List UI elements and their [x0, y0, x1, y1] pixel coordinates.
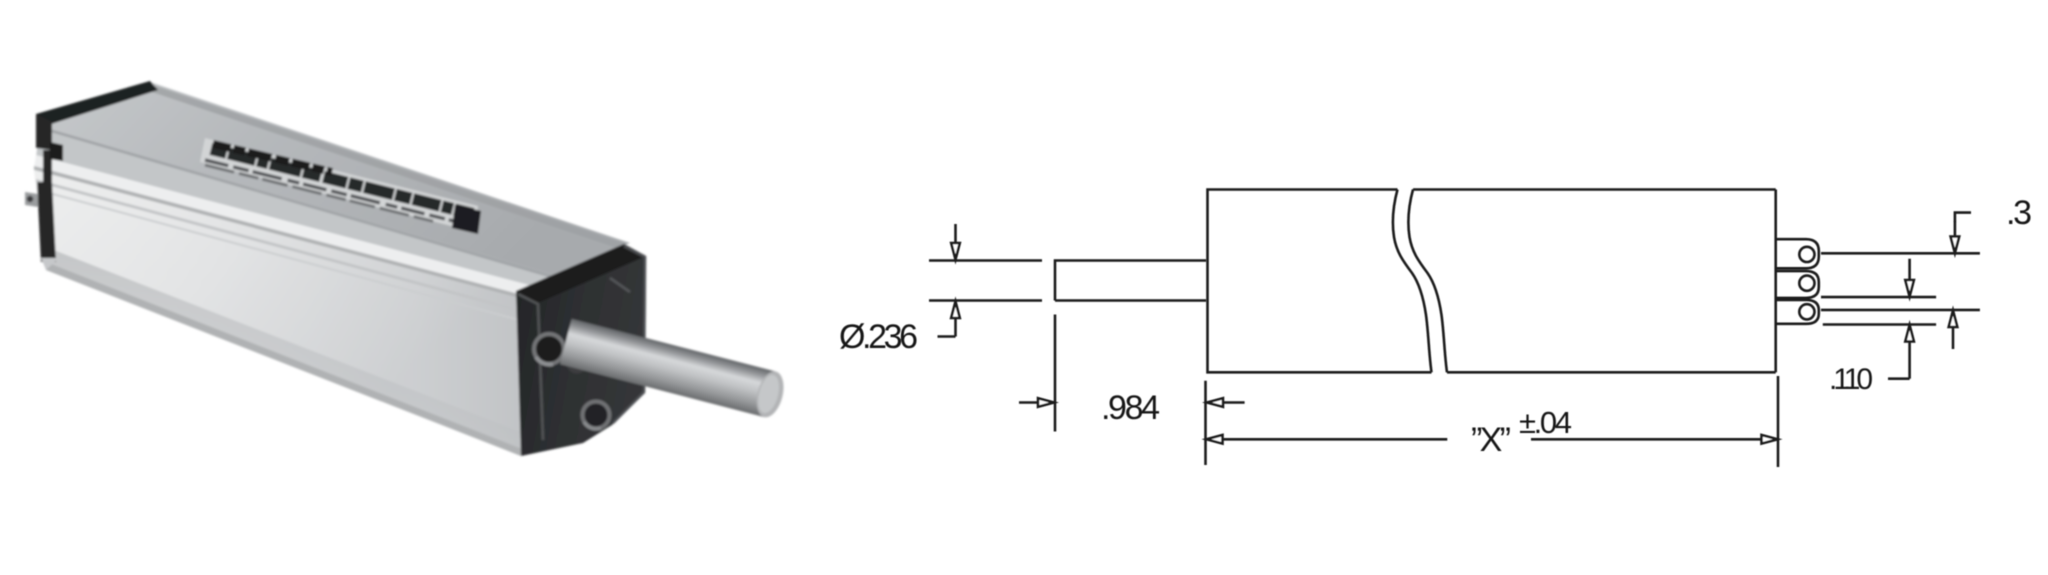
terminal line C [1821, 309, 1980, 312]
terminal lug 3 [1776, 300, 1819, 324]
svg-text:.984: .984 [1101, 389, 1160, 427]
svg-text:.110: .110 [1829, 363, 1873, 396]
right end cap top face [516, 244, 646, 303]
dim .110 arrow down [1905, 259, 1914, 297]
left end cap side strip lower [37, 182, 56, 262]
front bottom rim [46, 262, 522, 456]
top face back edge shade [146, 84, 626, 249]
dia arrow down [951, 224, 960, 260]
svg-text:Ø.236: Ø.236 [839, 318, 918, 356]
dim .3 arrow up [1949, 311, 1958, 350]
cap screw lower [583, 402, 610, 429]
left end cap top band [36, 81, 158, 126]
DRAWING GROUP [839, 190, 2032, 468]
dim .3 leader [1955, 213, 1971, 222]
cap edge highlight [613, 246, 645, 423]
dim .984 left arrow [1019, 398, 1054, 407]
dia arrow up [951, 302, 960, 337]
chamfer dividing line [40, 126, 556, 279]
label on top face [200, 138, 481, 234]
ext line body right [1777, 376, 1780, 467]
break line left [1393, 190, 1432, 373]
PHOTO GROUP [25, 81, 788, 457]
terminal line D [1823, 323, 1936, 326]
cap screw upper [534, 334, 564, 364]
dim .110 arrow up [1905, 325, 1914, 379]
lug 1 hole [1799, 247, 1814, 262]
dia leader [938, 335, 956, 338]
break line right [1408, 190, 1447, 373]
lug 3 hole [1799, 304, 1814, 319]
terminal lug 1 [1776, 239, 1819, 268]
cap front chamfer highlight [518, 294, 543, 440]
screw1 glint [536, 357, 553, 364]
tab screw dot [27, 196, 33, 202]
body outline with break gaps [1208, 190, 1776, 373]
terminal line B [1821, 296, 1936, 299]
transducer top face [40, 82, 630, 276]
ext line body left [1204, 381, 1207, 465]
cap top chamfer glint [610, 278, 630, 292]
dim X right segment [1531, 435, 1778, 444]
terminal lug 2 [1776, 271, 1819, 298]
shaft root shadow [561, 327, 599, 377]
bottom left wedge [41, 258, 59, 270]
lug 2 hole [1799, 276, 1814, 291]
front face bottom edge shade [46, 247, 523, 457]
dim .110 leader [1888, 377, 1910, 380]
shaft rectangle [1055, 261, 1206, 301]
shaft [560, 319, 788, 420]
svg-text:±.04: ±.04 [1519, 405, 1572, 440]
bevel highlight [34, 155, 548, 303]
dim .3 arrow down [1951, 221, 1960, 253]
svg-text:.3: .3 [2006, 194, 2032, 232]
transducer front face [34, 170, 545, 456]
bevel bottom line [34, 166, 545, 305]
dim .984 right arrow [1207, 398, 1245, 407]
shaft bottom extension line [929, 299, 1042, 302]
dim X left arrow [1207, 435, 1448, 444]
left cap notch bump [50, 142, 63, 161]
front face right darkening [34, 170, 545, 456]
front face groove line 2 [38, 189, 545, 328]
left end cap side strip upper [36, 114, 52, 150]
ext line shaft left [1054, 315, 1057, 432]
svg-text:”X”: ”X” [1471, 421, 1511, 459]
top face chamfer band [36, 126, 556, 292]
terminal line A [1821, 252, 1980, 255]
front face groove line 1 [36, 179, 545, 319]
shaft top extension line [929, 259, 1042, 262]
right end cap silhouette [516, 244, 646, 456]
strip narrow at notch [43, 150, 52, 182]
screw2 glint [584, 422, 601, 429]
left mounting tab [25, 192, 38, 207]
